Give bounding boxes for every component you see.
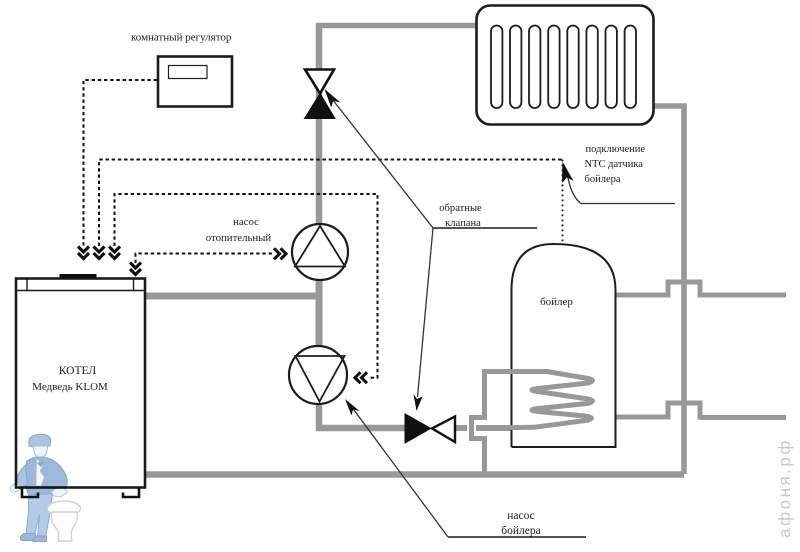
wire: check valve outlet to coil inlet — [454, 425, 470, 431]
wire: heating pump control dashed — [136, 254, 274, 264]
wire: return pipe boiler bottom — [145, 471, 684, 478]
wire: tank top-right pipe crossover jog — [668, 282, 700, 298]
svg-text:КОТЕЛ: КОТЕЛ — [59, 365, 97, 377]
radiator fins — [491, 26, 636, 109]
wire: boiler pump control dashed — [115, 194, 378, 378]
leader arrow to pump P2 — [348, 402, 448, 537]
boiler right foot — [123, 488, 139, 497]
arrow into boiler 4 (heating pump wire) — [130, 263, 141, 275]
svg-text:бойлера: бойлера — [585, 174, 621, 185]
svg-text:подключение: подключение — [586, 144, 646, 155]
svg-text:бойлер: бойлер — [540, 296, 573, 308]
heat exchanger coil in tank — [476, 372, 593, 429]
dashed control wires — [84, 80, 563, 378]
wire: regulator to boiler dashed — [84, 80, 158, 246]
svg-text:комнатный регулятор: комнатный регулятор — [131, 32, 232, 44]
svg-text:бойлера: бойлера — [501, 525, 540, 537]
arrow into boiler 2 — [94, 247, 105, 259]
check valve V2 (horizontal, before tank coil) — [405, 414, 431, 443]
boiler body КОТЕЛ — [16, 279, 145, 488]
wire: coil inlet into tank — [476, 425, 532, 431]
wire: supply pipe boiler to riser — [145, 293, 320, 300]
wire: main vertical supply riser — [316, 23, 323, 224]
wire: NTC sensor dashed line boiler to tank — [99, 160, 563, 247]
boiler top black cap — [60, 274, 97, 279]
wire: NTC dotted drop to tank dome — [562, 160, 564, 244]
svg-text:насос: насос — [233, 216, 259, 228]
pump P1 heating circuit (circle with up triangle) — [292, 224, 348, 280]
wire: tank bottom-right service pipe left segment — [615, 415, 668, 420]
svg-text:NTC датчика: NTC датчика — [585, 159, 644, 170]
leader arrow to valve V1 — [327, 93, 433, 229]
check valve V1 (vertical, on supply riser) — [305, 70, 334, 94]
arrow into heating pump — [274, 248, 286, 259]
wire: riser between pumps — [316, 280, 323, 348]
wire: tank bottom-right pipe crossover jog — [668, 403, 700, 420]
leader arrow to NTC wire — [568, 175, 676, 204]
arrow into boiler pump — [355, 372, 367, 383]
svg-text:Медведь KLOM: Медведь KLOM — [32, 381, 108, 393]
svg-text:отопительный: отопительный — [206, 232, 272, 244]
wire: tank top-right service pipe right segment — [700, 293, 786, 298]
wire: radiator right drop pipe — [654, 106, 684, 474]
svg-text:обратные: обратные — [439, 203, 482, 214]
watermark toilet — [48, 501, 81, 541]
watermark plumber figure — [10, 434, 67, 541]
wire: coil riser crossover jog over check valve line — [467, 420, 476, 436]
tank boiler (бойлер) body — [512, 244, 616, 447]
leader arrow to valve V2 — [418, 228, 434, 397]
arrow into boiler 1 — [78, 247, 89, 259]
wire: riser below boiler pump to check valve line — [319, 404, 406, 428]
pump P2 boiler circuit (circle with down triangle) — [289, 346, 347, 404]
wire: coil outlet riser upper part — [482, 369, 487, 416]
arrow chevrons into boiler (regulator wire) — [78, 247, 367, 384]
svg-text:насос: насос — [507, 510, 535, 522]
room regulator box — [158, 57, 232, 107]
wire: tank top-right service pipe left segment — [615, 293, 668, 298]
wire: tank bottom-right service pipe right segment — [700, 415, 786, 420]
svg-text:афоня.рф: афоня.рф — [775, 438, 794, 538]
arrow into boiler 3 — [109, 247, 120, 259]
boiler top bar — [16, 290, 145, 292]
boiler left foot — [22, 488, 38, 497]
regulator display window — [169, 66, 208, 79]
radiator body — [477, 6, 654, 125]
